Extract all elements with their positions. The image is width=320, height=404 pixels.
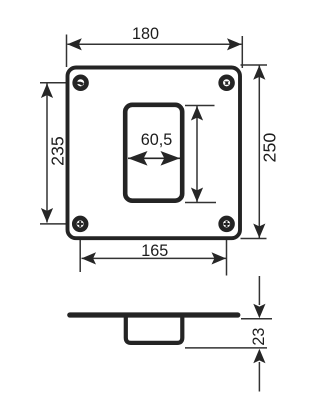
dimension 23: extension line top (241, 318, 272, 320)
hole centerline left of bottom-left hole (40, 223, 74, 225)
dimension 235: dimension line (46, 84, 48, 223)
unlabeled vertical dimension: arrow down (191, 188, 203, 203)
dimension 180: arrow left (67, 38, 82, 50)
dimension 250: dimension line (258, 65, 260, 238)
unlabeled vertical dimension: arrow up (191, 106, 203, 121)
side view: plate bar (70, 312, 238, 317)
unlabeled vertical dimension: extension line bottom (185, 202, 216, 204)
screw hole top-left (75, 77, 87, 89)
inner rectangular opening (125, 105, 182, 201)
dimension 235: arrow down (41, 208, 53, 223)
screw hole bottom-left (74, 218, 86, 230)
svg-text:250: 250 (260, 133, 280, 163)
dimension 23: lower line with up arrow (258, 362, 260, 392)
dimension 23: extension line bottom (185, 347, 267, 349)
dimension 165: arrow left (82, 252, 97, 264)
plate outline (front view) (68, 68, 241, 239)
svg-text:60,5: 60,5 (141, 131, 173, 149)
svg-text:235: 235 (47, 136, 67, 166)
svg-text:165: 165 (141, 242, 168, 260)
dimension 180: dimension line (67, 43, 241, 45)
hole centerline left of top-left hole (40, 82, 74, 84)
dimension 180: extension line left (66, 35, 68, 68)
dimension 235: arrow up (41, 84, 53, 99)
dimension 180: arrow right (227, 38, 242, 50)
dimension 250: arrow down (253, 224, 265, 239)
dimension 60,5: double arrow (128, 157, 180, 159)
side view: U channel (126, 316, 183, 343)
screw hole bottom-right (221, 218, 233, 230)
dimension 250: extension line top (241, 64, 268, 66)
extension line below bottom-right hole (226, 231, 228, 276)
dimension 23: upper line with down arrow (258, 276, 260, 305)
dimension 250: arrow up (253, 65, 265, 80)
unlabeled vertical dimension: dimension line (196, 106, 198, 202)
hole centerline stub top-right hole (232, 82, 238, 84)
hole centerline stub bottom-right hole (233, 223, 239, 225)
dimension 165: arrow right (212, 252, 227, 264)
dimension 165: dimension line (82, 257, 227, 259)
extension line below bottom-left hole (79, 231, 81, 272)
unlabeled vertical dimension: extension line top (185, 105, 215, 107)
svg-text:180: 180 (132, 25, 159, 43)
svg-text:23: 23 (250, 328, 268, 346)
dimension 180: extension line right (241, 36, 243, 68)
dimension 250: extension line bottom (241, 238, 267, 240)
screw hole top-right (221, 77, 233, 89)
